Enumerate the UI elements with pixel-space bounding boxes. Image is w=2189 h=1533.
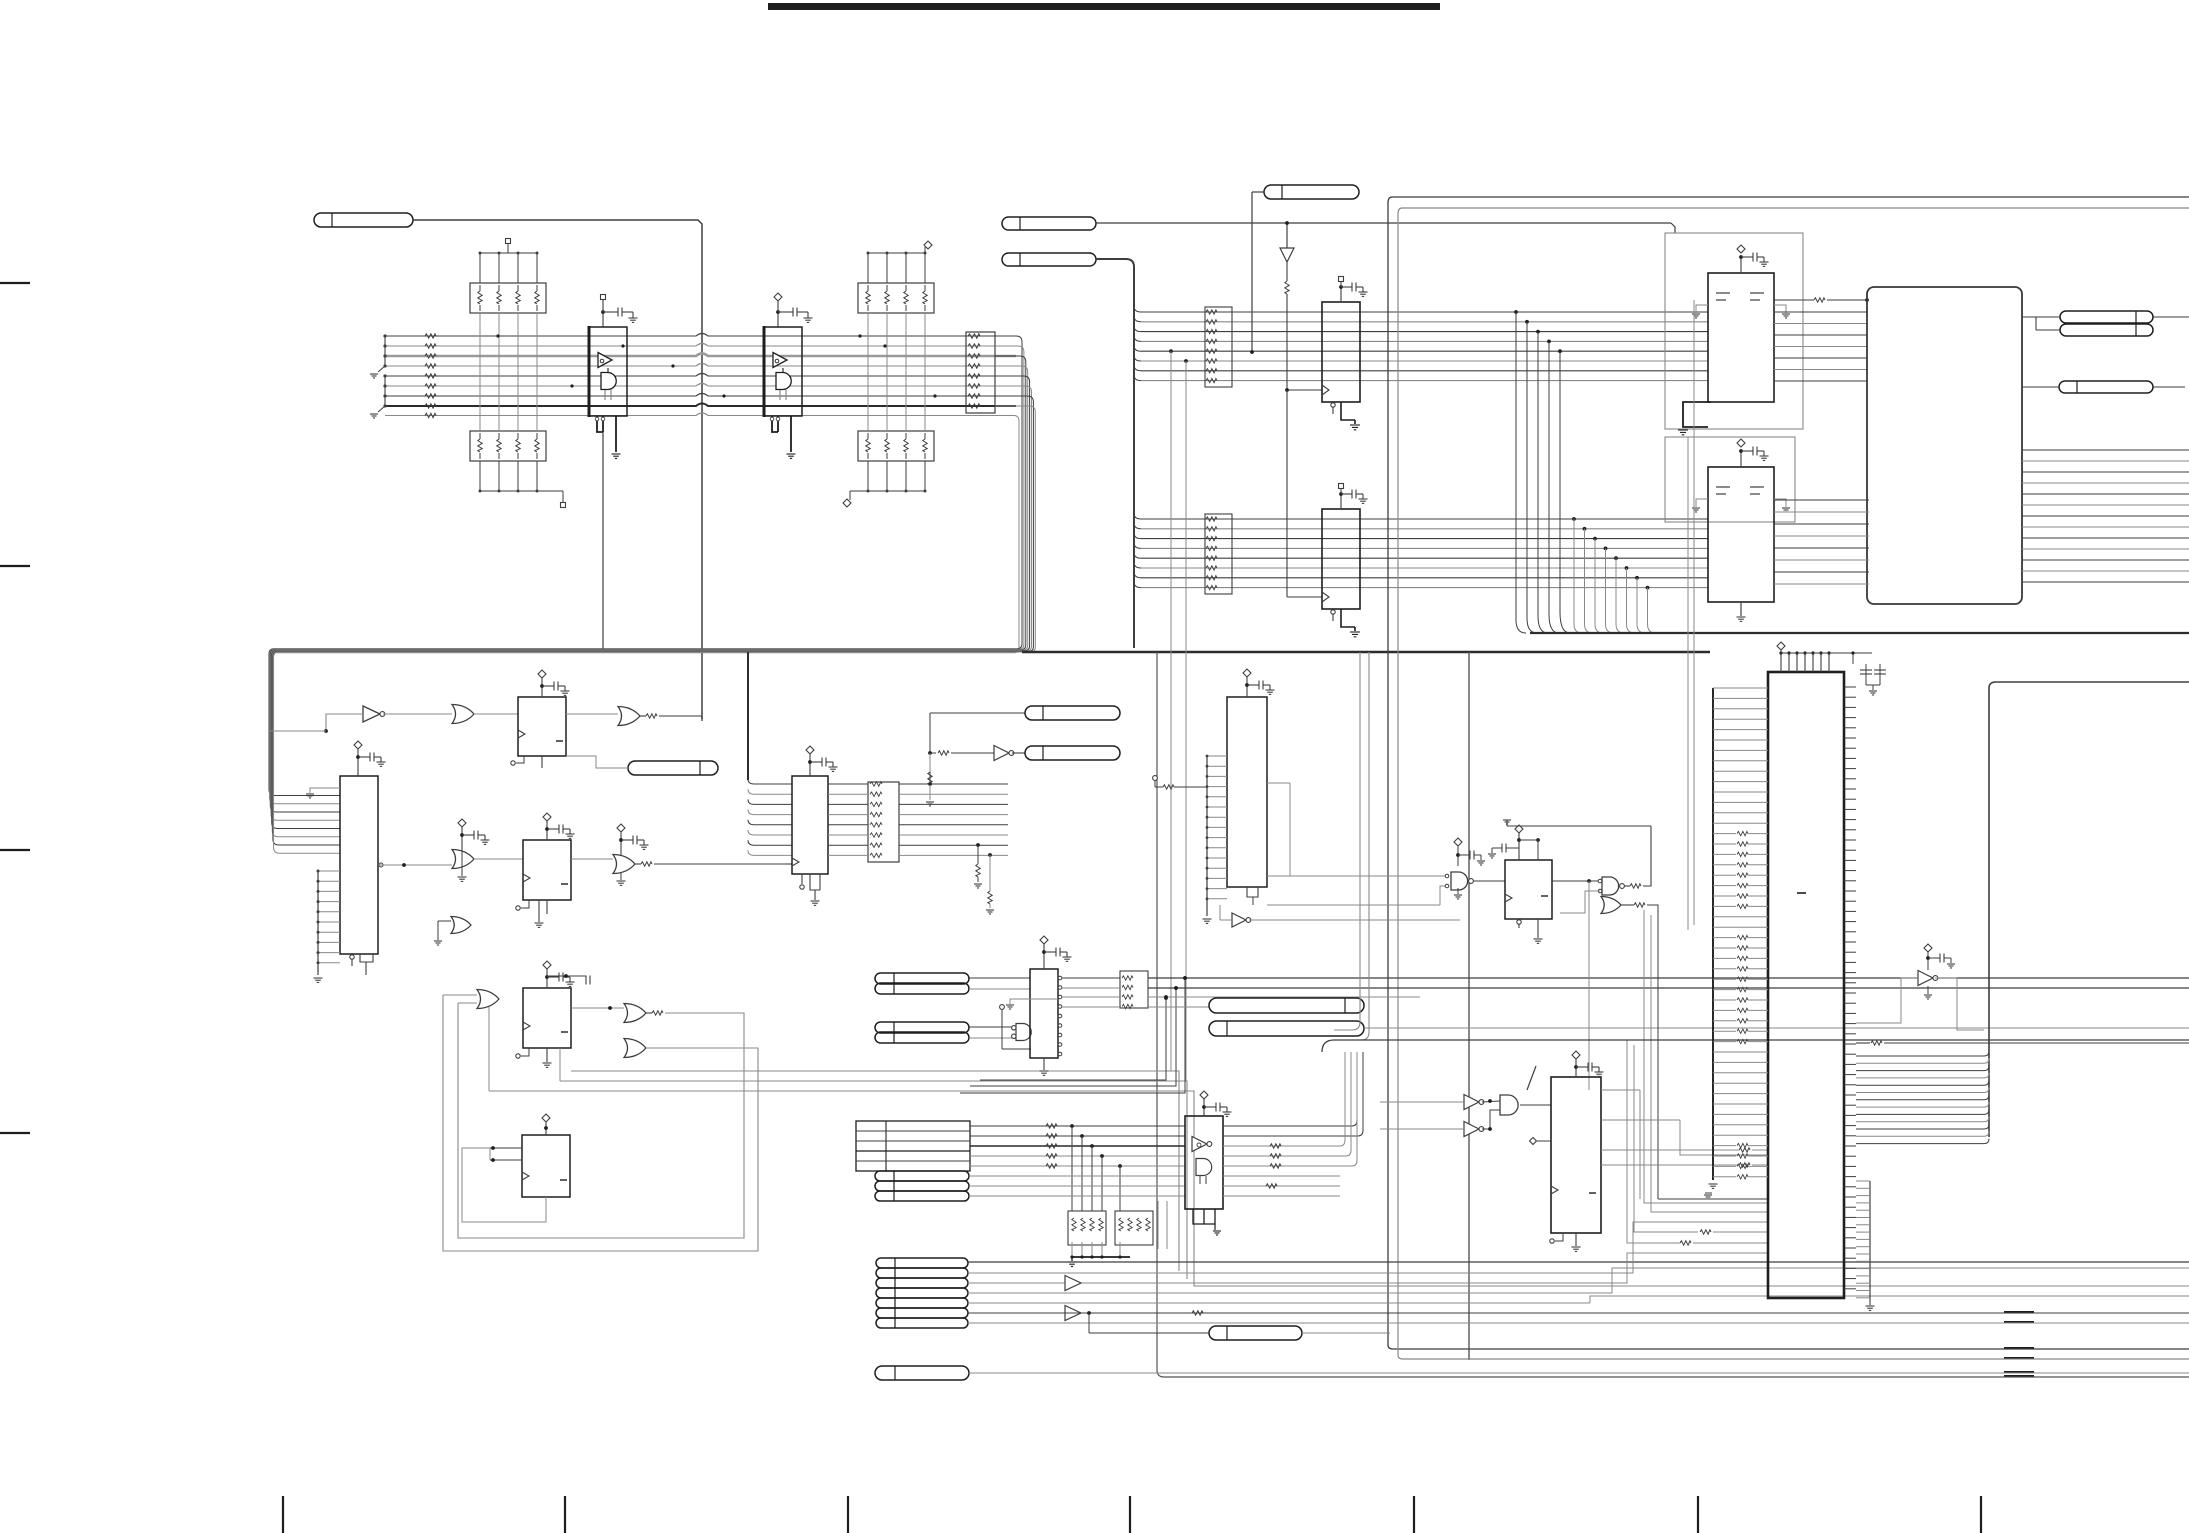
bottom rounded corner bus [1322, 1040, 2189, 1052]
slash mark [1527, 1066, 1536, 1090]
hanging resistor R6 [976, 843, 980, 847]
OR4 power tap [617, 824, 625, 832]
pill CN2-7 [876, 1318, 968, 1328]
B6 wiring [1856, 978, 1918, 1023]
P13/P14 wires to AND9 [969, 1026, 1014, 1028]
flip-flop FF2 [523, 840, 571, 900]
RN4 pull-down rails to terminal [867, 461, 869, 491]
resistor box R8 [1120, 971, 1148, 1008]
or gate OR5 (spare) [451, 917, 471, 934]
buffer IC U1 power pin [602, 312, 604, 327]
flip-flop FF3 [523, 988, 571, 1048]
NAND1 power [1454, 838, 1462, 846]
P10 feed resistor hang [929, 753, 931, 772]
clock wires to IC5/IC6 [1287, 389, 1322, 391]
CN2 line7 long [968, 1322, 2189, 1324]
buffer IC U2 internal buffer [773, 353, 787, 368]
FF5 cap left [1506, 847, 1519, 849]
inverter B2 to pill P10 [930, 752, 936, 754]
resistor network RN4 [858, 431, 934, 461]
IC10 right outputs to NAND1 [1267, 782, 1290, 784]
pill P14 [875, 1032, 969, 1043]
wire y1081 to x1187 [559, 1048, 561, 1081]
pill CN2-6 [876, 1308, 968, 1318]
FF6 power [1572, 1051, 1580, 1059]
register IC9 [1030, 969, 1058, 1058]
IC9 right lower pins [1058, 1014, 1062, 1018]
exit jog marks right edge [2004, 1311, 2034, 1313]
pill P12 [875, 983, 969, 994]
inverter B7 [1232, 913, 1246, 927]
left margin tick y850 [0, 849, 30, 851]
FF4 inputs [490, 1147, 522, 1149]
pill P11 [875, 973, 969, 984]
bus spine branch down x1157 [1157, 652, 2189, 1377]
latch IC7 power [1740, 257, 1742, 273]
pill P15 [1209, 998, 1364, 1013]
buffer IC U2 [764, 327, 802, 416]
buffer triangle B1 [363, 706, 380, 722]
FF4 feedback loop [462, 1148, 546, 1222]
connector pill P1 (top-left) [314, 213, 413, 227]
U4 output loop right [1989, 682, 2189, 1137]
junction dots on top bus [496, 334, 499, 337]
wire FF1 to OR2 [566, 713, 618, 715]
FF3 power cap2 [547, 975, 586, 977]
and gate AND9 [1016, 1024, 1031, 1041]
latch IC6 [1322, 509, 1360, 609]
taps from bus B down (8) [1572, 517, 1576, 521]
flip-flop FF6 [1551, 1077, 1601, 1233]
R5 out lines [899, 783, 1008, 785]
left margin tick y1133 [0, 1132, 30, 1134]
FF1 bottom loop [516, 756, 524, 763]
latch IC8 power [1740, 451, 1742, 467]
resistor pack RS1 (8 in line) [966, 332, 995, 413]
long wire y1043 [1856, 1042, 1870, 1044]
P16 wire [1364, 1027, 2189, 1029]
resistor pack R10 [1115, 1211, 1153, 1245]
FF5 bottom [1518, 919, 1520, 928]
long verticals x1688/1694 [1687, 437, 1689, 930]
or gate OR4 [613, 855, 635, 874]
hanging resistor R7 [988, 853, 992, 857]
latch IC8 internal marks [1716, 486, 1730, 488]
FF1 power [538, 670, 546, 678]
resistor network RN2 [470, 431, 546, 461]
IC4 clock wedge [792, 858, 799, 866]
pill CN2-3 [876, 1278, 968, 1288]
FF5 top ground rail [1507, 825, 1651, 827]
series resistors on top bus [425, 334, 436, 338]
latch IC7 side grounds [1696, 305, 1708, 313]
bus spine branch fan to IC4 [748, 779, 792, 784]
pill P21 mid [1209, 1326, 1302, 1340]
U4 top pins [1780, 653, 1782, 672]
OR4 output long wire to IC4 [635, 863, 641, 865]
power arrow symbol [1286, 223, 1288, 248]
wire B1 to OR1 [383, 713, 452, 715]
FF6 outputs right [1601, 1089, 1640, 1091]
IC3 tall register [340, 776, 378, 954]
IC3 left top stub w/ ground [310, 788, 340, 793]
resistor network RN1 [470, 283, 546, 313]
U4 top caps [1852, 653, 1854, 664]
wire y1091 to x1194 [488, 1007, 490, 1091]
AND9 aux terminal [1000, 1005, 1005, 1010]
IC8 bottom ground [1740, 602, 1742, 616]
FF3 bottom [521, 1048, 529, 1056]
flip-flop FF1 [518, 697, 566, 756]
bus TOP 9th line [385, 413, 1014, 416]
long verticals pair x1388/x1398 [1388, 197, 2189, 1349]
wire FF3 to OR7 [571, 1007, 624, 1009]
wire into B1 [326, 714, 363, 731]
IC10 bottom bracket [1247, 887, 1258, 897]
shield box S2 [1665, 437, 1795, 522]
bottom margin tick x1981 [1980, 1496, 1982, 1533]
pill P5 [2060, 311, 2153, 323]
bus fan A (to IC5) [1134, 306, 1141, 312]
U4 right pin stubs [1844, 686, 1856, 688]
IC9 bottom ground [1043, 1058, 1045, 1070]
IC9 ground bracket [1010, 999, 1058, 1004]
buffer IC U3 [1185, 1116, 1223, 1209]
buffer IC U1 internal and-gate [601, 373, 616, 390]
NAND2 output feedback [1624, 885, 1630, 887]
bus TOP bend down, run left along spine, down left edge, fan to IC3 [269, 336, 1022, 796]
FF2 bottom [521, 900, 529, 908]
inverter INV2 [1464, 1122, 1479, 1137]
latch IC7 [1708, 273, 1774, 402]
FF6 bottom [1575, 1233, 1577, 1246]
IC3 comb lower-left pins [318, 870, 340, 872]
bus fan B (to IC6) [1134, 513, 1141, 519]
pill CN2-1 [876, 1258, 968, 1268]
wire P4 down to bus [1252, 191, 1264, 193]
CN1 line taps down to packs [1070, 1124, 1074, 1128]
pill P13 [875, 1022, 969, 1033]
wire into OR6 from loops [443, 994, 477, 996]
P21 wires [1089, 1332, 1209, 1334]
or gate OR8 [624, 1039, 646, 1058]
bus spine branch down x748 [747, 652, 749, 780]
or gate OR2 [618, 707, 640, 726]
resistor pack R9 [1068, 1211, 1106, 1245]
or gate OR9 [1601, 897, 1621, 914]
resistor box R5 [868, 782, 899, 862]
RN1 pull-up rails to terminal [479, 253, 481, 283]
IC3 right pin circle [379, 863, 383, 867]
ground at left end of top bus [384, 336, 386, 366]
or gate OR7 [624, 1004, 646, 1023]
latch IC8 side grounds [1696, 499, 1708, 507]
IC3 bottom pins [351, 954, 353, 966]
AND10 out to FF6 [1520, 1104, 1551, 1106]
IC10 left resistor input [1153, 776, 1158, 781]
IC9 power [1040, 936, 1048, 944]
FF2 power [543, 813, 551, 821]
and gate AND10 [1500, 1095, 1518, 1115]
latch IC8 [1708, 467, 1774, 602]
flip-flop FF5 [1505, 860, 1552, 919]
resistor pack RPA [1205, 307, 1232, 387]
wire corner down to shield [1671, 223, 1675, 233]
connector pill P2 [1002, 217, 1096, 230]
buffer triangle B5 [1065, 1306, 1081, 1321]
wire OR3 to FF2 [474, 858, 523, 860]
or gate OR1 [452, 705, 474, 724]
pack risers [1157, 1201, 1159, 1249]
buffer IC U1 internal buffer [598, 353, 612, 368]
pill P7 [2059, 381, 2153, 393]
pill P18 [875, 1181, 969, 1191]
bottom margin tick x1414 [1413, 1496, 1415, 1533]
register IC10 [1227, 697, 1267, 887]
latch IC5 [1322, 302, 1360, 402]
buffer IC U1 bottom pins [597, 416, 603, 432]
bottom margin tick x565 [564, 1496, 566, 1533]
U4 left ladder rungs [1713, 687, 1768, 689]
taps from bus A down (5) [1514, 310, 1518, 314]
IC7 bus to loop rungs [1774, 311, 1867, 313]
IC10 power [1243, 669, 1251, 677]
buffer IC U2 power pin [777, 312, 779, 327]
CN2 line5 [968, 1302, 1590, 1304]
buffer IC U2 bottom pins [772, 416, 778, 432]
connector block CN1 [856, 1121, 970, 1171]
left margin tick y566 [0, 565, 30, 567]
pill lines continue right of U3 [1223, 1175, 1340, 1177]
shield box S1 [1665, 233, 1803, 429]
latch IC5 clock wedge [1322, 385, 1329, 395]
IC8 to loop rungs [1774, 499, 1869, 501]
wire to pill P9 row [929, 713, 931, 784]
pill P10 [1025, 746, 1120, 760]
INV inputs [1380, 1101, 1464, 1103]
pill CN2-4 [876, 1288, 968, 1298]
nand gate NAND1 [1451, 872, 1468, 890]
or gate OR6 [477, 990, 499, 1009]
bottom margin tick x1698 [1697, 1496, 1699, 1533]
FF4 power [545, 1122, 547, 1135]
resistor below arrow [1286, 262, 1288, 281]
IC4 power [806, 746, 814, 754]
connector pill P3 [1002, 253, 1096, 266]
comb ground [314, 977, 323, 979]
buffer inverter B6 [1918, 971, 1933, 986]
IC7 output resistor to loop [1774, 299, 1814, 301]
lines right of U3 bend up [1223, 1125, 1352, 1127]
wires up into connector IC group [980, 998, 1166, 1080]
inverter INV1 [1464, 1095, 1479, 1110]
verticals x1360/x1369 from spine to corner bus [1334, 652, 1360, 1030]
FF3 power [543, 961, 551, 969]
IC4 bottom pins [801, 874, 803, 884]
OR9 output down [1621, 904, 1634, 906]
RN3 pull-up rails to terminal [867, 253, 869, 283]
NAND1 inputs [1445, 874, 1449, 878]
bus TOP 8 lines with hops at x702 [385, 334, 1016, 337]
big loop rounded rect [1867, 287, 2022, 604]
resistor pack RPB [1205, 514, 1232, 594]
pill P6 [2060, 324, 2153, 336]
flip-flop FF4 [522, 1135, 570, 1197]
buffer IC U2 internal and-gate [776, 373, 791, 390]
U4 internal dash [1797, 892, 1806, 894]
latch IC6 clock wedge [1322, 592, 1329, 602]
CN2 wires [968, 1261, 2189, 1263]
bus spine branch down x1469 [1468, 652, 1470, 1360]
bottom margin tick x1130 [1129, 1496, 1131, 1533]
IC9 right pins [1058, 976, 1062, 980]
bus from P3 down x1134 [1096, 259, 1134, 648]
pill P9 [1025, 706, 1120, 720]
wire FF2 to OR4 [571, 858, 613, 860]
RN1/RN2 rails crossing bus [479, 313, 481, 431]
big IC U4 [1768, 672, 1844, 1298]
IC10 left pin comb [1207, 755, 1227, 757]
bus out right 13 lines [2022, 449, 2189, 451]
latch IC5 power [1340, 287, 1342, 302]
RN2 pull-down rails to terminal [479, 461, 481, 491]
IC9 out lines through R8 [1062, 977, 1120, 979]
B6 power [1924, 944, 1932, 952]
wire NAND1 to FF5 [1473, 880, 1505, 882]
bus spine y633 to right edge [1530, 632, 2189, 634]
OR2 output resistor to node702 [640, 715, 646, 717]
U3 power [1200, 1091, 1208, 1099]
wire from P1 to node down x702 [413, 220, 702, 719]
IC3 power [354, 741, 362, 749]
resistor network RN3 [858, 283, 934, 313]
pill CN2-5 [876, 1298, 968, 1308]
P5/P6 stub wires [2022, 316, 2060, 318]
latch IC6 power [1340, 494, 1342, 509]
FF5 out to NAND2 [1552, 880, 1600, 882]
RN3/RN4 rails crossing bus [867, 313, 869, 431]
pill P16 [1209, 1021, 1364, 1036]
OR3 power tap [458, 819, 466, 827]
latch IC6 bottom pins [1332, 609, 1334, 621]
U3 bottom bold [1193, 1209, 1215, 1224]
pill P8 [628, 761, 718, 775]
wire P2 to right y223 [1096, 222, 1671, 224]
FF6 left terminal [1530, 1138, 1537, 1145]
resistors on lines after U3 [1270, 1144, 1281, 1148]
wire y1071 to x1179 [571, 1071, 1179, 1271]
left margin tick y283 [0, 282, 30, 284]
wires down to big IC lower pins [1644, 910, 1768, 1203]
or gate OR3 [452, 850, 474, 869]
wire OR1 to FF1 [474, 713, 518, 715]
connector pill P4 [1264, 185, 1359, 199]
buffer triangle B4 [1065, 1276, 1081, 1291]
IC7 bold bottom-left stub [1683, 402, 1711, 427]
bottom margin tick x848 [847, 1496, 849, 1533]
packs bottom rail + ground [1071, 1256, 1130, 1258]
latch IC7 internal marks [1716, 292, 1730, 294]
nand gate NAND2 [1602, 877, 1619, 895]
latch IC5 bottom pins [1332, 402, 1334, 414]
U4 right lower ladder [1869, 1181, 1871, 1300]
P11/P12 wires to IC9 [969, 977, 1030, 979]
pill P17 [875, 1171, 969, 1181]
wire bus to OR3 [378, 864, 452, 866]
pill P22 single [875, 1366, 969, 1380]
pill CN2-2 [876, 1268, 968, 1278]
feedback loop B OR8 [443, 995, 758, 1251]
FF5 power [1515, 825, 1523, 833]
P8 wire to FF1 [566, 756, 628, 768]
buffer IC U1 [589, 327, 627, 416]
long verticals x1171/x1186 from bus A down [1169, 349, 1173, 353]
U4 left resistor ladder rail [1712, 688, 1714, 1180]
P22 long wire [969, 1372, 2189, 1374]
pill P19 [875, 1191, 969, 1201]
bottom margin tick x283 [282, 1496, 284, 1533]
feedback loop A OR7 [646, 1012, 652, 1014]
CN1 out lines [970, 1125, 1185, 1127]
register IC4 [792, 776, 828, 874]
CN2 line6 long [968, 1312, 2189, 1314]
U4 right bus 13 lines [1856, 1055, 1984, 1057]
bus spine y652 [1022, 651, 1710, 653]
title underline bar [768, 3, 1440, 10]
